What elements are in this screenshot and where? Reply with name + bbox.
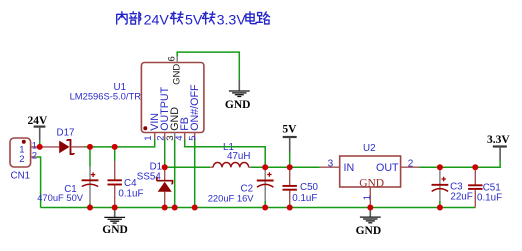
capacitor C3 22uF (432, 170, 473, 202)
pin 2 of CN1 (31, 156, 37, 158)
svg-text:220uF 16V: 220uF 16V (208, 192, 255, 203)
svg-text:C50: C50 (300, 182, 319, 193)
node FB/C2 junction (262, 164, 268, 170)
wire 5V drop (289, 153, 291, 168)
svg-text:3.3V: 3.3V (217, 12, 247, 28)
svg-text:47uH: 47uH (227, 151, 250, 162)
diode D17 (40, 128, 85, 155)
svg-text:0.1uF: 0.1uF (477, 192, 502, 203)
node C3 top junction (437, 164, 443, 170)
ground GND bottom right (below U2) (356, 208, 382, 238)
node C3 bottom junction (437, 205, 443, 211)
capacitor C4 0.1uF (108, 161, 144, 208)
power port 5V (282, 123, 297, 152)
pin 5 ON#/OFF (194, 133, 196, 140)
pin 1 VIN (154, 133, 156, 140)
svg-text:D17: D17 (57, 128, 75, 139)
svg-text:5V: 5V (282, 123, 297, 135)
wire U1 pin3 to ground rail (174, 140, 176, 208)
svg-text:470uF 50V: 470uF 50V (37, 192, 84, 203)
node switch node junction (162, 164, 168, 170)
wire U1 pin2 to switch node (164, 139, 166, 167)
node D1 bottom junction (162, 205, 168, 211)
op-amp U2 (320, 143, 420, 208)
wire L1 to U2 IN (251, 166, 320, 168)
svg-text:OUT: OUT (376, 162, 399, 174)
svg-text:1: 1 (143, 135, 154, 140)
电 (246, 12, 256, 24)
inductor L1 47uH (210, 142, 251, 167)
power port 24V (28, 115, 49, 141)
svg-text:1: 1 (362, 195, 373, 200)
pin 1 GND (369, 187, 371, 208)
connector CN1 (10, 138, 40, 181)
op-amp U1 LM2596S-5.0/TR (70, 56, 204, 140)
svg-text:U2: U2 (363, 143, 376, 154)
wire C4 top (114, 147, 116, 161)
路 (257, 12, 270, 24)
svg-text:22uF: 22uF (450, 191, 472, 202)
title 内部24V转5V转3.3V电路 (117, 12, 270, 29)
diode D1 SS54 (137, 161, 173, 207)
node C2 bottom junction (262, 205, 268, 211)
node 5V/C50 junction (287, 164, 293, 170)
svg-text:GND: GND (102, 224, 128, 236)
wire C2 bottom (264, 201, 266, 208)
svg-text:CN1: CN1 (11, 170, 31, 181)
svg-text:5V: 5V (185, 12, 203, 28)
svg-text:GND: GND (171, 64, 182, 85)
node 24V/CN1 junction (37, 144, 43, 150)
svg-text:5: 5 (188, 135, 199, 140)
svg-text:0.1uF: 0.1uF (118, 188, 143, 199)
wire ground rail C (41, 207, 476, 209)
svg-text:LM2596S-5.0/TR: LM2596S-5.0/TR (70, 91, 142, 102)
svg-text:GND: GND (359, 177, 384, 189)
capacitor C1 470uF 50V (37, 167, 98, 204)
ground GND bottom left (below C4) (102, 208, 128, 236)
wire U1 pin5 to ground rail (194, 139, 196, 208)
wire CN1 pin2 to ground rail (37, 157, 41, 208)
svg-text:24V: 24V (28, 115, 49, 127)
capacitor C2 220uF 16V (208, 167, 274, 203)
wire 24V drop to rail A (39, 141, 41, 147)
node U2 pin1 bottom junction (367, 205, 373, 211)
node C1 bottom junction (87, 205, 93, 211)
wire C50 bottom (289, 204, 291, 208)
svg-text:4: 4 (174, 135, 185, 140)
pin 2 OUTPUT (164, 133, 166, 140)
pin 3 GND (174, 133, 176, 140)
转 (170, 12, 183, 24)
capacitor C50 0.1uF (283, 167, 319, 204)
svg-text:3: 3 (328, 158, 334, 169)
svg-text:ON#/OFF: ON#/OFF (189, 84, 201, 131)
svg-text:2: 2 (32, 150, 37, 161)
svg-text:24V: 24V (144, 12, 170, 28)
wire C1 top (89, 147, 91, 167)
node U1 pin5 bottom junction (192, 205, 198, 211)
wire C3 bottom (439, 201, 441, 208)
部 (130, 12, 141, 25)
wire U2 OUT to 3.3V (420, 160, 501, 168)
pin 4 FB (184, 133, 186, 140)
node C1 top junction (87, 144, 93, 150)
wire U1 pin6 to GND symbol (177, 52, 239, 80)
内 (117, 12, 127, 24)
svg-text:GND: GND (356, 225, 382, 237)
svg-text:3.3V: 3.3V (487, 134, 510, 146)
svg-text:6: 6 (166, 56, 177, 61)
svg-text:2: 2 (408, 158, 414, 169)
wire rail A from D17 to U1 pin1 (85, 139, 155, 147)
node C51 top junction (472, 164, 478, 170)
capacitor C51 0.1uF (468, 167, 502, 207)
power port 3.3V (487, 134, 510, 159)
wire C1 bottom (89, 204, 91, 208)
wire FB net U1 pin4 to output node (185, 139, 266, 167)
pin 3 IN (320, 166, 340, 168)
转 (second) (202, 12, 215, 24)
ground GND top (near U1 pin 6) (225, 80, 251, 111)
svg-text:2: 2 (19, 154, 24, 165)
svg-text:IN: IN (344, 162, 355, 174)
pin 6 GND top (176, 57, 178, 63)
pin 2 OUT (401, 166, 420, 168)
wire switch node to L1 (165, 166, 211, 168)
node U1 pin3 bottom junction (172, 205, 178, 211)
svg-text:0.1uF: 0.1uF (292, 193, 317, 204)
svg-text:GND: GND (225, 99, 251, 111)
pin 1 of CN1 (31, 146, 40, 148)
node C50 bottom junction (287, 205, 293, 211)
node C4 top junction (112, 144, 118, 150)
node C4 bottom junction (112, 205, 118, 211)
